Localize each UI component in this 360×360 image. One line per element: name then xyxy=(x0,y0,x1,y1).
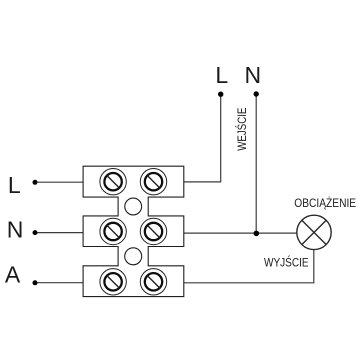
svg-text:L: L xyxy=(8,172,21,198)
svg-text:OBCIĄŻENIE: OBCIĄŻENIE xyxy=(294,196,356,210)
svg-text:A: A xyxy=(5,261,21,287)
svg-text:L: L xyxy=(215,62,228,88)
svg-text:N: N xyxy=(245,62,262,88)
svg-text:N: N xyxy=(7,216,24,242)
svg-text:WYJŚCIE: WYJŚCIE xyxy=(264,255,309,270)
svg-text:WEJŚCIE: WEJŚCIE xyxy=(234,108,249,151)
